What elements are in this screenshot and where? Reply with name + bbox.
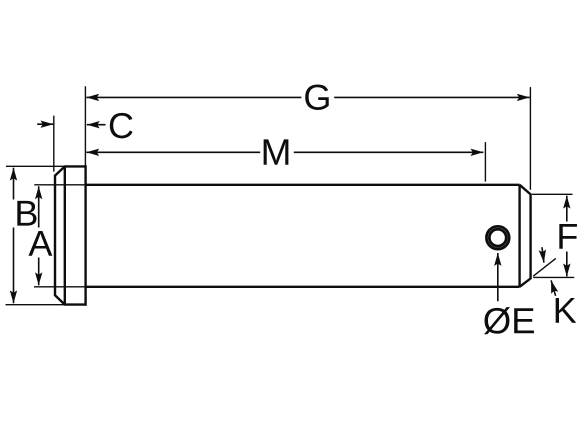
dimension C arrow right (87, 124, 106, 126)
extension line head left face (C) (53, 116, 55, 172)
leader arrow hole diameter E (497, 253, 499, 301)
shank end chamfer edge (518, 185, 520, 287)
dimension B upper segment (13, 168, 15, 200)
dimension M right segment (294, 151, 484, 153)
dimension G right segment (334, 96, 530, 98)
head right edge (84, 165, 86, 306)
extension line chamfer bottom (F/K) (533, 276, 574, 278)
dimension B lower segment (13, 228, 15, 304)
head bottom chamfer (55, 295, 65, 304)
shank top edge (86, 184, 520, 186)
chamfer reference diagonal (K) (533, 258, 556, 276)
label K (556, 298, 577, 323)
extension lines (6, 86, 575, 304)
shank bottom-right chamfer (520, 278, 531, 286)
extension line head right face (G/C/M datum) (84, 86, 86, 166)
shank right end face (529, 194, 531, 280)
cotter pin hole outer circle (486, 226, 509, 249)
dimension M left segment (86, 151, 260, 153)
pin shank outline (86, 185, 531, 287)
dimension lines (14, 97, 567, 303)
label M (264, 139, 289, 164)
extension line chamfer top (F) (532, 193, 573, 195)
label A (28, 231, 52, 256)
extension line pin right end (G) (529, 87, 531, 190)
head left edge (54, 175, 56, 296)
clevis pin head outline (55, 165, 86, 306)
extension line hole near side (M) (484, 142, 486, 182)
shank top-right chamfer (520, 185, 531, 195)
head top edge (64, 165, 87, 167)
label C (110, 113, 133, 138)
extension line head bottom (B) (6, 304, 66, 306)
dimension A lower segment (38, 258, 40, 286)
dimension C arrow left (37, 123, 53, 125)
label OE (484, 307, 534, 334)
dimension F upper segment (566, 196, 568, 222)
leader arrow K (551, 280, 556, 295)
label G (305, 84, 329, 109)
shank bottom edge (86, 286, 520, 288)
extension line head top (B) (6, 165, 65, 167)
cotter pin hole inner circle (489, 229, 506, 246)
head bottom edge (64, 303, 87, 305)
label F (559, 224, 577, 249)
label B (17, 201, 36, 226)
dimension A upper segment (38, 186, 40, 227)
extension line shank top (A) (34, 184, 85, 186)
dimension F lower segment (566, 252, 568, 277)
head top chamfer (55, 166, 65, 175)
leader arrow chamfer (542, 247, 544, 262)
extension line shank bottom (A) (34, 286, 86, 288)
head chamfer inner edge (64, 166, 66, 304)
dimension G left segment (86, 96, 301, 98)
